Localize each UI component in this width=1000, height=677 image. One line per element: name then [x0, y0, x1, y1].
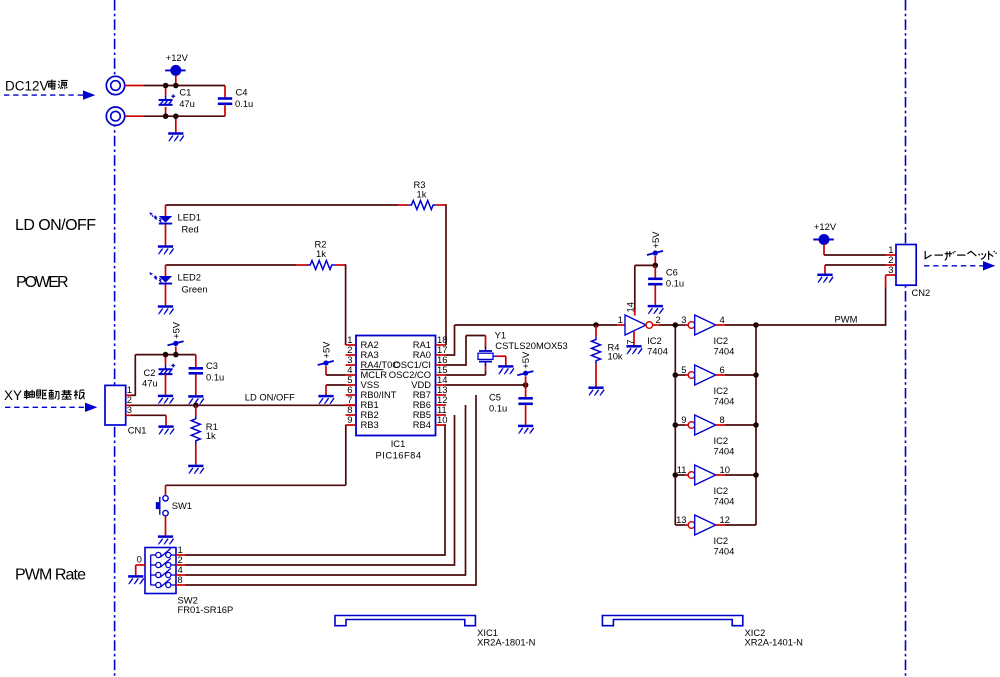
- wire SW2-1 to RB4: [176, 425, 445, 556]
- wire PWM net: [756, 275, 896, 326]
- svg-text:PWM: PWM: [835, 313, 858, 324]
- ground SW2 common: [128, 576, 144, 584]
- svg-text:LD ON/OFF: LD ON/OFF: [245, 392, 295, 403]
- junction input rails: [163, 83, 179, 119]
- wire Y1 center to ground: [497, 356, 506, 365]
- label LD ON/OFF: [15, 217, 96, 234]
- svg-text:IC2: IC2: [714, 385, 729, 396]
- svg-text:12: 12: [720, 514, 730, 525]
- op-amp U? inverter IC2A 7404: [618, 302, 676, 356]
- svg-text:Green: Green: [182, 283, 208, 294]
- wire +5V to 7404 pin14: [635, 256, 656, 315]
- svg-text:7404: 7404: [714, 395, 735, 406]
- wire 7404 output bus: [755, 325, 757, 525]
- wire pin17 to 7404 input: [446, 325, 625, 356]
- wire R3 to IC pin18: [445, 204, 447, 345]
- label PWM Rate: [15, 567, 86, 584]
- svg-text:7404: 7404: [714, 495, 735, 506]
- svg-text:CN1: CN1: [128, 425, 147, 436]
- ground CN1 pin3: [158, 427, 174, 435]
- wire +5V stem: [175, 347, 177, 355]
- wire CN1 pin3 to ground: [126, 415, 166, 425]
- svg-text:IC2: IC2: [714, 435, 729, 446]
- resistor R4 10k: [592, 325, 623, 387]
- junction buffer row 1: [673, 322, 759, 328]
- svg-text:FR01-SR16P: FR01-SR16P: [178, 604, 234, 615]
- svg-text:3: 3: [681, 314, 686, 325]
- svg-text:C6: C6: [666, 267, 678, 278]
- svg-text:9: 9: [347, 414, 352, 425]
- svg-text:+5V: +5V: [520, 351, 531, 369]
- LED LED2 Green: [149, 265, 207, 305]
- svg-text:C4: C4: [236, 87, 248, 98]
- svg-text:LED2: LED2: [178, 272, 201, 283]
- connector CN2: [888, 244, 930, 298]
- junction buffer row 4: [673, 472, 759, 478]
- svg-text:XR2A-1401-N: XR2A-1401-N: [745, 636, 803, 647]
- svg-text:7404: 7404: [714, 345, 735, 356]
- wire SW1 to ground: [165, 516, 167, 536]
- svg-text:10: 10: [437, 414, 447, 425]
- svg-text:9: 9: [681, 414, 686, 425]
- terminal DC12V positive: [106, 75, 126, 126]
- svg-text:XR2A-1801-N: XR2A-1801-N: [477, 636, 535, 647]
- capacitor C2 47u: [142, 355, 175, 395]
- capacitor C5 0.1u: [489, 385, 533, 425]
- svg-text:0.1u: 0.1u: [206, 372, 224, 383]
- svg-text:+5V: +5V: [650, 231, 661, 249]
- wire SW2 common to ground: [136, 565, 145, 575]
- svg-text:PIC16F84: PIC16F84: [376, 449, 422, 460]
- wire LD ON/OFF net: [126, 392, 356, 406]
- ground LED1: [158, 247, 174, 255]
- svg-text:XY: XY: [4, 388, 22, 403]
- svg-text:DC12V: DC12V: [5, 79, 49, 94]
- svg-text:7404: 7404: [714, 545, 735, 556]
- power symbol +12V: [165, 52, 189, 76]
- wire +12V to CN2 pin1: [824, 244, 896, 255]
- wire input ground stem: [175, 116, 177, 132]
- ground VSS: [318, 396, 334, 404]
- wire CN2 pin2 to ground: [825, 265, 896, 274]
- ground C3: [188, 396, 204, 404]
- power symbol +5V (CN1 rail): [168, 321, 184, 346]
- ground R4: [588, 388, 604, 396]
- svg-text:1k: 1k: [316, 248, 326, 259]
- ground C2: [158, 396, 174, 404]
- wire pin16 to Y1 top: [446, 336, 486, 366]
- svg-text:LED1: LED1: [178, 212, 201, 223]
- ground Y1: [498, 366, 514, 374]
- svg-text:10k: 10k: [608, 351, 623, 362]
- svg-text:1k: 1k: [417, 189, 427, 200]
- wire pin14 VDD rail: [446, 384, 526, 386]
- svg-text:3: 3: [888, 264, 893, 275]
- svg-text:7404: 7404: [647, 345, 668, 356]
- wire pin5 VSS to ground: [326, 385, 346, 395]
- wire LED2 anode rail: [166, 264, 297, 266]
- svg-text:IC2: IC2: [714, 485, 729, 496]
- wire CN1 pin1 to +5V rail: [126, 355, 196, 396]
- capacitor C4 0.1u: [218, 86, 253, 117]
- svg-text:Red: Red: [182, 223, 199, 234]
- op-amp inverter IC2 7404 row 5: [675, 514, 756, 556]
- ground R1: [188, 466, 204, 474]
- power symbol +5V (7404): [647, 231, 663, 256]
- wire SW2-4 to RB6: [176, 405, 466, 576]
- svg-text:+12V: +12V: [814, 221, 837, 232]
- svg-text:C1: C1: [179, 87, 191, 98]
- junction R4 tap: [593, 322, 599, 328]
- wire GND rail bottom: [125, 115, 225, 117]
- power symbol +5V (VDD): [517, 351, 533, 376]
- svg-text:IC2: IC2: [714, 335, 729, 346]
- svg-text:+5V: +5V: [321, 341, 332, 359]
- resistor R3 1k: [398, 179, 446, 210]
- board boundary left (dash-dot): [114, 0, 116, 677]
- label DC12V power input: [5, 79, 49, 94]
- svg-text:+5V: +5V: [170, 321, 181, 339]
- power symbol +5V (MCLR): [318, 341, 334, 366]
- svg-text:Y1: Y1: [495, 330, 506, 341]
- capacitor C1 47u: [159, 86, 195, 117]
- wire pin9 RB3 to SW1: [166, 425, 346, 496]
- svg-text:PWM Rate: PWM Rate: [15, 567, 86, 584]
- junction buffer row 3: [673, 422, 759, 428]
- junction +5V rail: [163, 352, 179, 358]
- switch SW2 FR01-SR16P: [137, 544, 234, 615]
- svg-text:1k: 1k: [206, 430, 216, 441]
- svg-text:C3: C3: [206, 360, 218, 371]
- svg-text:0.1u: 0.1u: [666, 278, 684, 289]
- svg-text:7404: 7404: [714, 445, 735, 456]
- svg-text:11: 11: [677, 464, 687, 475]
- svg-text:1: 1: [618, 314, 623, 325]
- svg-text:0: 0: [137, 553, 142, 564]
- wire LED1 anode rail: [166, 204, 399, 206]
- svg-text:4: 4: [720, 314, 725, 325]
- svg-text:47u: 47u: [142, 378, 158, 389]
- capacitor C6 0.1u: [648, 265, 684, 305]
- junction VDD tap: [523, 382, 529, 388]
- svg-text:47u: 47u: [179, 98, 195, 109]
- net label laser head arrow (dashed): [924, 261, 995, 270]
- wire SW2-8 to RB7: [176, 395, 476, 586]
- svg-text:+12V: +12V: [166, 52, 189, 63]
- power symbol +12V (CN2): [813, 221, 837, 245]
- wire 7404 input bus: [674, 325, 676, 525]
- svg-text:CN2: CN2: [912, 287, 931, 298]
- svg-text:0.1u: 0.1u: [489, 403, 507, 414]
- label POWER: [16, 274, 69, 291]
- wire R2 to IC pin1: [345, 264, 347, 345]
- svg-text:13: 13: [676, 514, 686, 525]
- terminal DC12V negative: [106, 107, 124, 125]
- ground input rail: [168, 134, 184, 142]
- net label DC12V arrow (dashed): [4, 90, 95, 99]
- svg-text:14: 14: [624, 302, 635, 312]
- LED LED1 Red: [149, 205, 201, 245]
- svg-text:2: 2: [656, 314, 661, 325]
- svg-text:IC2: IC2: [714, 535, 729, 546]
- op-amp inverter IC2 7404 row 1: [675, 314, 756, 356]
- ground CN2 pin2: [817, 275, 833, 283]
- IC socket XIC1 XR2A-1801-N: [335, 616, 535, 648]
- svg-text:6: 6: [720, 364, 725, 375]
- junction R1 tap: [193, 403, 199, 409]
- svg-text:POWER: POWER: [16, 274, 69, 291]
- IC IC1 PIC16F84: [346, 334, 448, 460]
- ground C5: [518, 426, 534, 434]
- capacitor C3 0.1u: [189, 355, 225, 396]
- svg-text:C2: C2: [144, 367, 156, 378]
- wire +5V VDD stem: [525, 376, 527, 385]
- svg-text:5: 5: [681, 364, 686, 375]
- wire SW2-2 to RB5: [176, 415, 455, 566]
- wire +12V stem: [175, 75, 177, 86]
- board boundary right (dashed): [905, 0, 907, 677]
- ground C6: [648, 306, 664, 314]
- svg-text:RB3: RB3: [361, 419, 379, 430]
- svg-text:RB4: RB4: [413, 419, 431, 430]
- junction buffer row 2: [673, 372, 759, 378]
- switch SW1 (momentary): [156, 496, 192, 516]
- op-amp inverter IC2 7404 row 3: [675, 414, 756, 456]
- label XY axis driver board: [4, 388, 22, 403]
- svg-text:0.1u: 0.1u: [235, 98, 253, 109]
- svg-text:10: 10: [720, 464, 730, 475]
- svg-text:8: 8: [720, 414, 725, 425]
- connector CN1: [105, 384, 146, 436]
- svg-text:C5: C5: [489, 392, 501, 403]
- wire +12V rail top: [125, 85, 225, 87]
- op-amp inverter IC2 7404 row 4: [675, 464, 756, 506]
- IC socket XIC2 XR2A-1401-N: [602, 616, 802, 648]
- svg-text:IC1: IC1: [391, 438, 406, 449]
- svg-text:7: 7: [624, 340, 635, 345]
- svg-text:IC2: IC2: [647, 335, 662, 346]
- wire pin15 to Y1 bottom: [446, 364, 486, 376]
- ground 7404 pin7: [626, 346, 642, 354]
- ground SW1: [158, 537, 174, 545]
- net label XY arrow (dashed): [5, 403, 97, 412]
- svg-text:CSTLS20MOX53: CSTLS20MOX53: [495, 340, 567, 351]
- resonator Y1 CSTLS20MOX53: [478, 330, 568, 366]
- resistor R1 1k: [191, 405, 217, 464]
- svg-text:LD ON/OFF: LD ON/OFF: [15, 217, 96, 234]
- label laser head (katakana): [0, 0, 1, 1]
- svg-text:SW1: SW1: [172, 500, 192, 511]
- resistor R2 1k: [296, 239, 346, 270]
- ground LED2: [158, 307, 174, 315]
- op-amp inverter IC2 7404 row 2: [675, 364, 756, 406]
- wire +5V to pin4 MCLR: [326, 366, 346, 375]
- junction C6 tap: [653, 263, 659, 269]
